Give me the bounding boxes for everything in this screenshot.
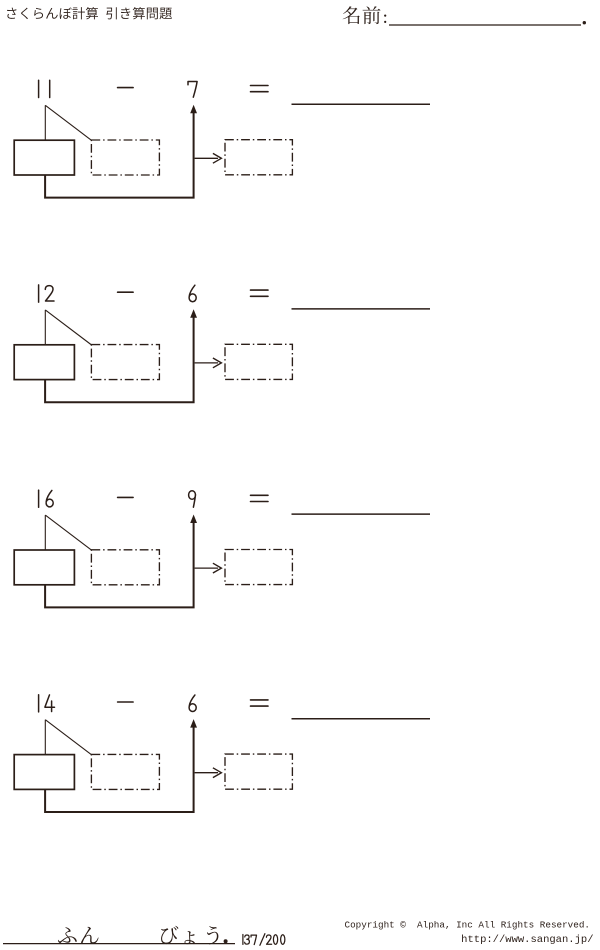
problem 2 group: 12 - 6 [14,285,430,402]
split line vertical (to tens box) [44,310,46,345]
equals sign [251,290,269,296]
right arrow shaft [195,362,218,364]
dashed box 2 (result) [225,140,292,175]
L-shaped arrow path from solid box up to subtrahend [45,521,194,607]
problem 3 group: 16 - 9 [14,490,430,607]
right arrowhead chevron [213,563,222,573]
solid answer box [14,140,74,175]
solid answer box [14,550,74,585]
subtrahend 6 [189,695,196,712]
split line vertical (to tens box) [44,515,46,550]
dashed box 1 [91,754,159,789]
minus sign [118,496,134,498]
split line vertical (to tens box) [44,720,46,755]
up arrowhead [190,719,197,728]
right arrow shaft [195,772,218,774]
up arrowhead [190,309,197,318]
solid answer box [14,345,74,380]
answer blank line [292,103,431,105]
sheet number 137/200 [243,934,285,946]
L-shaped arrow path from solid box up to subtrahend [45,726,194,812]
equals sign [251,495,269,501]
dashed box 1 [91,345,159,380]
solid answer box [14,755,74,790]
L-shaped arrow path from solid box up to subtrahend [45,112,194,198]
answer blank line [292,308,431,310]
right arrowhead chevron [213,153,222,163]
svg-text:Copyright © Alpha, Inc All Ri: Copyright © Alpha, Inc All Rights Reserv… [345,919,590,930]
footer time blank line [3,943,235,945]
minus sign [118,701,134,703]
minus sign [118,291,134,293]
dashed box 2 (result) [225,344,292,379]
dashed box 2 (result) [225,754,292,789]
name underline [389,24,581,26]
up arrowhead [190,515,197,524]
dashed box 2 (result) [225,550,292,585]
up arrowhead [190,105,197,114]
equals sign [251,700,269,706]
subtrahend 9 [189,491,196,508]
right arrowhead chevron [213,358,222,368]
split line diagonal (to ones dashed box) [45,310,91,345]
name label 名前: [343,6,360,24]
ふん label [58,927,77,943]
minus sign [118,87,134,89]
dashed box 1 [91,550,159,585]
split line vertical (to tens box) [44,105,46,140]
subtrahend 7 [188,82,197,98]
period after name line [583,21,586,24]
subtrahend 6 [189,285,196,302]
minuend 14 [38,695,40,712]
header title さくらんぼ計算 引き算問題 [7,8,16,19]
dashed box 1 [91,140,159,175]
answer blank line [292,513,431,515]
minuend 12 [38,285,40,302]
svg-text:http://www.sangan.jp/: http://www.sangan.jp/ [461,934,593,946]
right arrow shaft [195,567,218,569]
split line diagonal (to ones dashed box) [45,720,91,755]
minuend 16 [38,490,40,507]
right arrowhead chevron [213,768,222,778]
equals sign [251,86,269,92]
split line diagonal (to ones dashed box) [45,105,91,140]
answer blank line [292,718,431,720]
right arrow shaft [195,157,218,159]
problem 1 group: 11 - 7 [14,80,430,197]
minuend 11 [38,80,40,97]
split line diagonal (to ones dashed box) [45,515,91,550]
problem 4 group: 14 - 6 [14,695,430,812]
L-shaped arrow path from solid box up to subtrahend [45,316,194,402]
びょう. label [161,926,178,944]
